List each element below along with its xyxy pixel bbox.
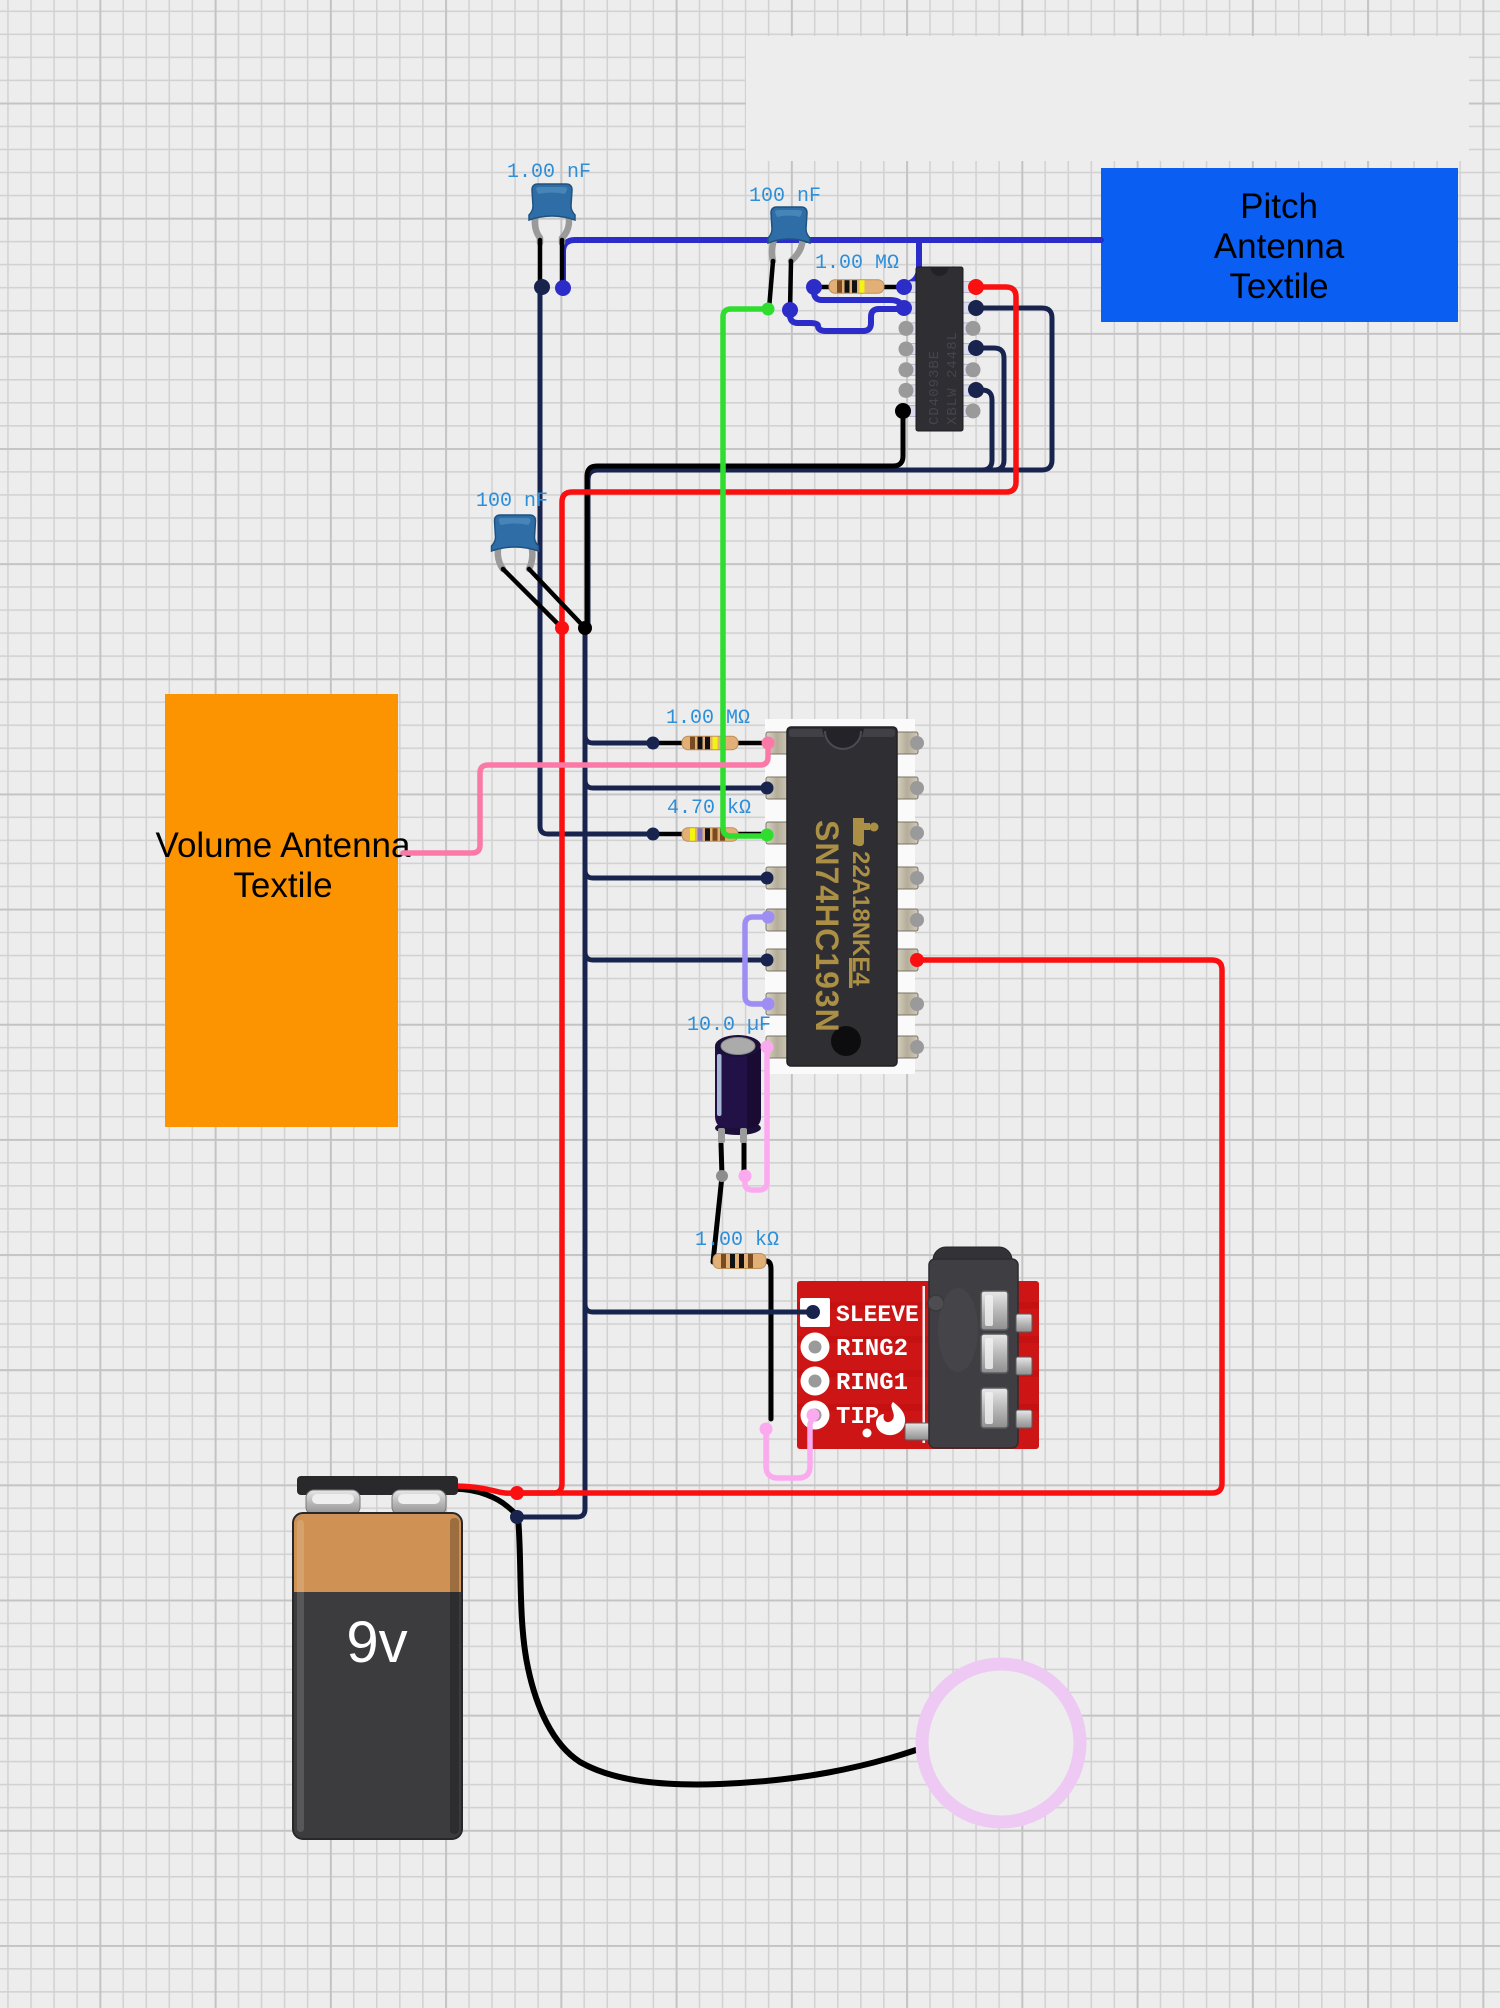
svg-text:1.00 MΩ: 1.00 MΩ (666, 707, 750, 730)
svg-text:TIP: TIP (836, 1404, 879, 1431)
svg-text:Volume Antenna: Volume Antenna (156, 826, 411, 865)
svg-text:Textile: Textile (1229, 267, 1328, 306)
svg-text:Pitch: Pitch (1240, 187, 1318, 226)
svg-text:1.00 kΩ: 1.00 kΩ (695, 1229, 779, 1252)
svg-text:RING1: RING1 (836, 1370, 908, 1397)
svg-text:10.0 µF: 10.0 µF (687, 1014, 771, 1037)
svg-text:SLEEVE: SLEEVE (836, 1302, 919, 1328)
svg-text:Textile: Textile (233, 866, 332, 905)
svg-text:4.70 kΩ: 4.70 kΩ (667, 797, 751, 820)
svg-text:1.00 MΩ: 1.00 MΩ (815, 252, 899, 275)
svg-text:SN74HC193N: SN74HC193N (809, 820, 845, 1033)
svg-text:100 nF: 100 nF (476, 490, 548, 513)
svg-text:CD4093BE: CD4093BE (927, 350, 943, 425)
svg-text:9v: 9v (346, 1610, 407, 1675)
svg-text:100 nF: 100 nF (749, 185, 821, 208)
svg-text:RING2: RING2 (836, 1336, 908, 1363)
svg-text:XBLW 2448L: XBLW 2448L (945, 331, 961, 425)
svg-text:1.00 nF: 1.00 nF (507, 161, 591, 184)
svg-text:Antenna: Antenna (1214, 227, 1345, 266)
